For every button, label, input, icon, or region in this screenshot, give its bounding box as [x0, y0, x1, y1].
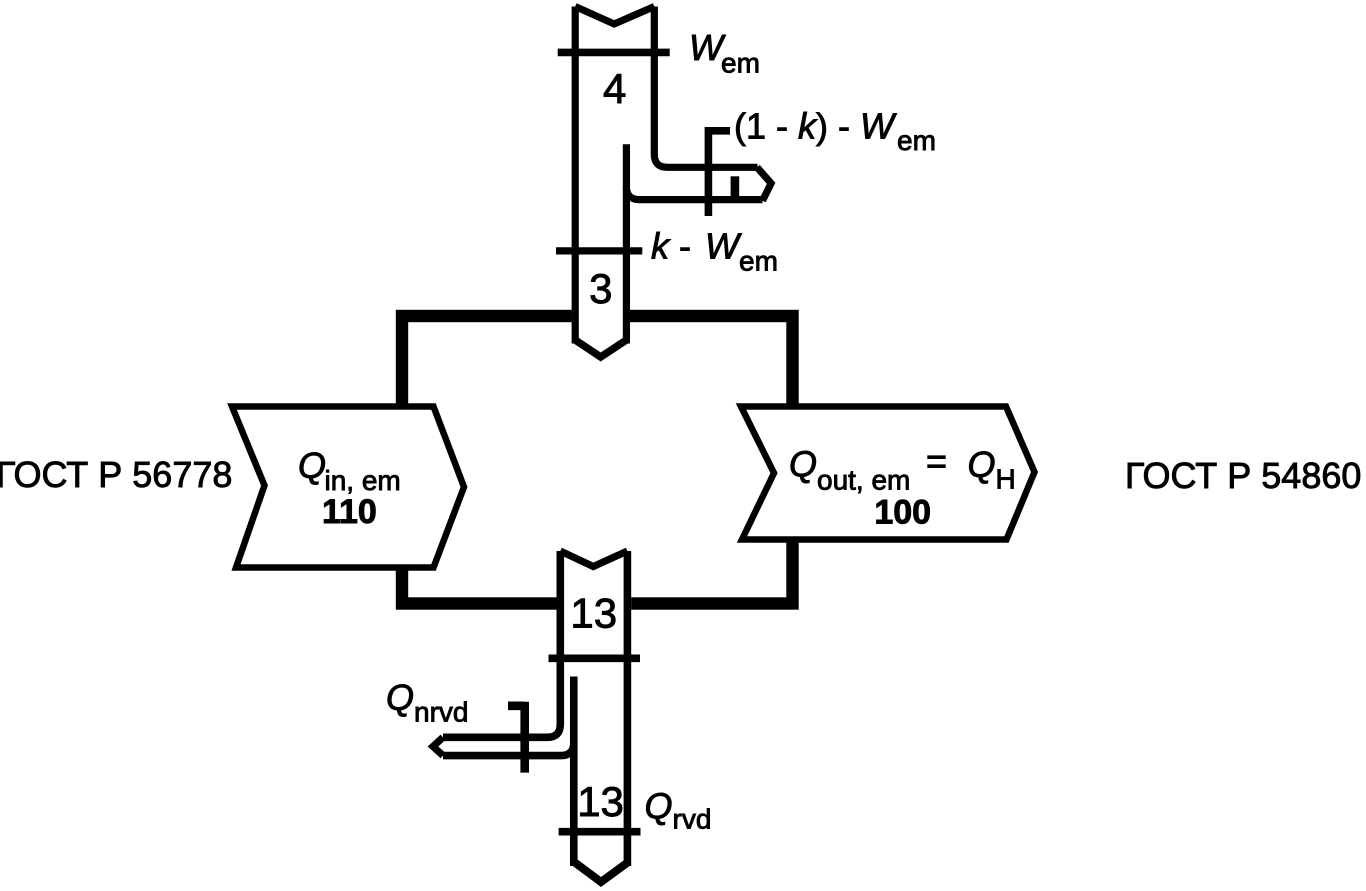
svg-text:13: 13: [577, 778, 624, 825]
svg-text:k: k: [651, 226, 671, 267]
svg-text:Q: Q: [645, 786, 673, 827]
svg-text:Q: Q: [789, 444, 817, 485]
svg-text:in, em: in, em: [325, 465, 401, 496]
svg-text:W: W: [705, 226, 742, 267]
svg-text:ГОСТ Р 56778: ГОСТ Р 56778: [0, 454, 232, 495]
svg-text:ГОСТ Р 54860: ГОСТ Р 54860: [1125, 455, 1361, 496]
svg-text:(1 - k) - W: (1 - k) - W: [734, 106, 897, 147]
svg-text:=: =: [926, 441, 947, 482]
svg-text:110: 110: [322, 493, 377, 531]
svg-text:rvd: rvd: [673, 804, 712, 835]
svg-text:-: -: [679, 226, 691, 267]
svg-text:em: em: [897, 125, 936, 156]
svg-text:13: 13: [570, 590, 617, 637]
svg-text:em: em: [721, 48, 760, 79]
svg-text:nrvd: nrvd: [414, 697, 468, 728]
svg-text:Q: Q: [298, 445, 326, 486]
svg-text:3: 3: [589, 265, 612, 312]
svg-text:100: 100: [874, 494, 931, 532]
svg-text:out, em: out, em: [817, 465, 910, 496]
svg-text:Q: Q: [386, 677, 414, 718]
svg-text:Q: Q: [968, 444, 996, 485]
svg-text:em: em: [739, 246, 778, 277]
svg-text:4: 4: [603, 65, 626, 112]
svg-text:H: H: [996, 464, 1016, 495]
